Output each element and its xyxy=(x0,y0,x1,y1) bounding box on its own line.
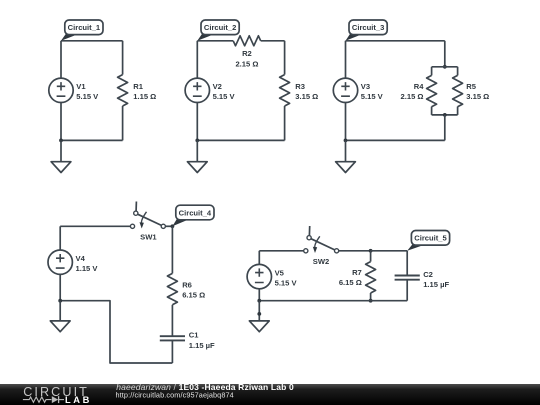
wire V2 to R2 xyxy=(197,40,233,42)
node corner circuit 4 xyxy=(171,224,175,228)
node ground junction circuit 5 xyxy=(257,312,261,316)
switch SW2 xyxy=(304,226,339,266)
wire V5 top lead xyxy=(258,251,260,265)
svg-text:Circuit_1: Circuit_1 xyxy=(68,23,101,32)
svg-text:5.15 V: 5.15 V xyxy=(213,92,236,101)
svg-text:R7: R7 xyxy=(352,268,362,277)
wire bottom rail circuit 5 xyxy=(259,300,407,302)
svg-text:Circuit_2: Circuit_2 xyxy=(204,23,237,32)
wire C1 bottom lead xyxy=(171,340,173,363)
wire V3 bottom lead xyxy=(345,103,347,141)
wire C2 top lead xyxy=(406,251,408,276)
wire R1 bottom lead xyxy=(122,106,124,140)
svg-text:3.15 Ω: 3.15 Ω xyxy=(466,92,489,101)
resistor R7 6.15 Ω xyxy=(339,262,376,293)
wire V1 bottom lead xyxy=(60,103,62,141)
wire R3 bottom lead xyxy=(284,106,286,140)
svg-text:SW2: SW2 xyxy=(313,257,329,266)
svg-text:Circuit_4: Circuit_4 xyxy=(179,208,212,217)
wire V4 top lead xyxy=(59,226,61,250)
wire R7 bottom lead xyxy=(370,293,372,301)
wire bottom return circuit 4 xyxy=(60,301,172,363)
wire R4 top lead xyxy=(431,67,433,76)
node junction V5 bottom xyxy=(257,299,261,303)
node R7 bottom junction xyxy=(369,299,373,303)
voltage source V2 5.15 V xyxy=(185,78,235,102)
svg-text:V1: V1 xyxy=(76,82,86,91)
svg-text:R5: R5 xyxy=(466,82,476,91)
voltage source V1 5.15 V xyxy=(49,78,99,102)
svg-text:1.15 µF: 1.15 µF xyxy=(423,280,449,289)
switch SW1 xyxy=(130,202,165,242)
svg-text:2.15 Ω: 2.15 Ω xyxy=(235,60,258,69)
svg-text:Circuit_3: Circuit_3 xyxy=(352,23,385,32)
CircuitLab logo wordmark xyxy=(23,385,92,405)
svg-text:1.15 µF: 1.15 µF xyxy=(189,341,215,350)
wire C2 bottom lead xyxy=(406,280,408,301)
resistor R3 3.15 Ω xyxy=(280,75,319,106)
wire V1 top lead xyxy=(60,41,62,78)
wire V3 top lead xyxy=(345,41,347,78)
wire R5 bottom lead xyxy=(457,107,459,115)
label callout Circuit_1 xyxy=(61,20,103,41)
wire parallel top rail xyxy=(432,66,458,68)
wire bottom rail circuit 3 xyxy=(346,139,445,141)
svg-text:http://circuitlab.com/c957aeja: http://circuitlab.com/c957aejabq874 xyxy=(116,391,234,400)
svg-text:Circuit_5: Circuit_5 xyxy=(414,234,447,243)
label callout Circuit_5 xyxy=(407,231,449,251)
wire bottom rail circuit 2 xyxy=(197,139,284,141)
node parallel top junction xyxy=(443,65,447,69)
resistor R2 2.15 Ω xyxy=(233,36,261,69)
wire R7 top lead xyxy=(370,251,372,262)
ground circuit 3 xyxy=(336,162,356,173)
footer bar xyxy=(0,384,540,405)
svg-text:C2: C2 xyxy=(423,270,433,279)
wire parallel bottom rail xyxy=(432,114,458,116)
svg-text:5.15 V: 5.15 V xyxy=(275,279,298,288)
wire R6 top lead xyxy=(171,226,173,273)
svg-text:R1: R1 xyxy=(133,82,143,91)
label callout Circuit_3 xyxy=(346,20,388,41)
wire parallel feed xyxy=(444,41,446,67)
wire top rail circuit 1 xyxy=(61,40,123,42)
wire R4 bottom lead xyxy=(431,107,433,115)
ground circuit 1 xyxy=(51,162,71,173)
svg-text:1.15 V: 1.15 V xyxy=(76,264,99,273)
svg-text:R3: R3 xyxy=(295,82,305,91)
svg-text:6.15 Ω: 6.15 Ω xyxy=(339,278,362,287)
ground circuit 4 xyxy=(50,321,70,332)
voltage source V5 5.15 V xyxy=(247,264,297,288)
wire top rail circuit 3 xyxy=(346,40,445,42)
svg-text:V3: V3 xyxy=(361,82,370,91)
wire parallel return xyxy=(444,115,446,140)
svg-text:V5: V5 xyxy=(275,268,285,277)
footer url text xyxy=(116,391,234,400)
node parallel bottom junction xyxy=(443,113,447,117)
footer title text xyxy=(116,382,294,392)
capacitor C1 1.15 µF xyxy=(160,331,215,350)
svg-text:SW1: SW1 xyxy=(140,233,157,242)
resistor R6 6.15 Ω xyxy=(167,273,205,304)
wire bottom rail circuit 1 xyxy=(61,139,123,141)
wire SW1 to corner xyxy=(165,225,172,227)
wire ground stem circuit 1 xyxy=(60,140,62,161)
svg-text:5.15 V: 5.15 V xyxy=(361,92,384,101)
label callout Circuit_4 xyxy=(172,205,214,226)
wire R2 to R3 xyxy=(261,40,285,42)
svg-text:LAB: LAB xyxy=(65,395,92,405)
wire ground stem circuit 5 xyxy=(258,301,260,321)
svg-text:R2: R2 xyxy=(242,49,252,58)
wire R5 top lead xyxy=(457,67,459,76)
node R7 top junction xyxy=(369,249,373,253)
node junction circuit 1 ground xyxy=(59,139,63,143)
wire ground stem circuit 4 xyxy=(59,301,61,321)
wire V5 to SW2 xyxy=(259,250,303,252)
wire V5 bottom lead xyxy=(258,289,260,301)
svg-text:1.15 Ω: 1.15 Ω xyxy=(133,92,156,101)
wire V4 bottom lead xyxy=(59,274,61,300)
wire R6 to C1 xyxy=(171,305,173,336)
svg-text:3.15 Ω: 3.15 Ω xyxy=(295,92,318,101)
wire SW2 to R7 xyxy=(339,250,371,252)
resistor R4 2.15 Ω xyxy=(401,75,437,106)
svg-text:2.15 Ω: 2.15 Ω xyxy=(401,92,424,101)
wire V2 bottom lead xyxy=(196,103,198,141)
CircuitLab logo resistor-diode glyph xyxy=(23,396,64,403)
svg-text:V2: V2 xyxy=(213,82,222,91)
node junction circuit 3 ground xyxy=(344,139,348,143)
resistor R1 1.15 Ω xyxy=(118,75,157,106)
wire R1 top lead xyxy=(122,41,124,75)
ground circuit 5 xyxy=(249,321,269,332)
svg-text:5.15 V: 5.15 V xyxy=(76,92,99,101)
wire V2 top lead xyxy=(196,41,198,78)
node junction circuit 4 ground xyxy=(58,299,62,303)
ground circuit 2 xyxy=(187,162,207,173)
svg-text:6.15 Ω: 6.15 Ω xyxy=(182,291,205,300)
svg-text:R4: R4 xyxy=(414,82,424,91)
resistor R5 3.15 Ω xyxy=(453,75,490,106)
svg-text:C1: C1 xyxy=(189,331,199,340)
svg-text:R6: R6 xyxy=(182,281,192,290)
wire V4 to SW1 xyxy=(60,225,130,227)
label callout Circuit_2 xyxy=(197,20,239,41)
wire R7 to C2 top xyxy=(371,250,408,252)
voltage source V3 5.15 V xyxy=(333,78,383,102)
voltage source V4 1.15 V xyxy=(48,250,98,274)
wire ground stem circuit 3 xyxy=(345,140,347,161)
wire R3 top lead xyxy=(284,41,286,75)
capacitor C2 1.15 µF xyxy=(395,270,450,289)
wire ground stem circuit 2 xyxy=(196,140,198,161)
svg-text:V4: V4 xyxy=(76,254,86,263)
node junction circuit 2 ground xyxy=(195,139,199,143)
